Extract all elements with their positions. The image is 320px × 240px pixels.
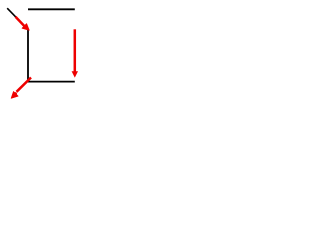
arrow C red vertical current arrow pointing down: [72, 29, 78, 77]
wire left vertical and bottom horizontal: [28, 29, 75, 82]
arrow B red annotation bottom-left pointing down-left: [11, 78, 31, 99]
wire diagonal from top-left to node: [7, 8, 28, 29]
node A red junction dot: [24, 25, 28, 29]
arrow A red annotation pointing down-right at node: [16, 17, 30, 30]
wire top horizontal: [28, 8, 75, 10]
